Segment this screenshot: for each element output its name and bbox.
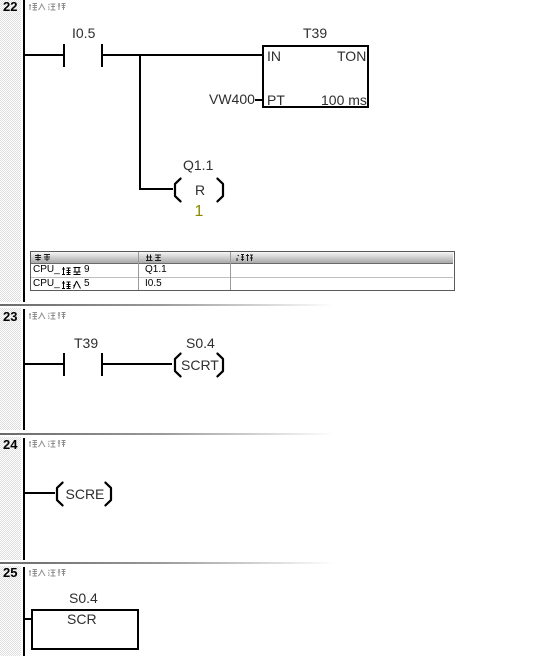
margin gutter network 25 <box>0 566 21 656</box>
symbol table header background <box>31 252 453 263</box>
network number 23 <box>3 310 17 323</box>
contact T39 right bar <box>101 353 103 376</box>
symbol table header bottom edge <box>31 263 453 264</box>
coil S0.4 label <box>186 336 215 350</box>
header 符号 <box>34 253 52 262</box>
SCR box title <box>67 612 97 626</box>
timer preset 100 ms <box>321 93 367 107</box>
coil (SCRT) S0.4 <box>170 352 228 378</box>
row 1 address Q1.1 <box>145 265 167 275</box>
row 2 address I0.5 <box>145 279 162 289</box>
contact I0.5 right bar <box>101 44 103 67</box>
contact I0.5 left bar <box>63 44 65 67</box>
wire: contact T39 to coil SCRT <box>102 363 172 365</box>
row 1 symbol CPU_输出9 <box>33 265 60 275</box>
left power rail network 22 <box>23 0 25 302</box>
wire: branch horizontal to reset coil <box>139 188 173 190</box>
coil R letter <box>195 183 205 197</box>
network comment 输入注释 <box>29 439 67 448</box>
coil (SCRE) <box>52 481 116 507</box>
coil SCRE text <box>66 487 105 501</box>
contact T39 left bar <box>63 353 65 376</box>
timer pin label PT <box>267 93 285 107</box>
wire: rail to contact T39 <box>25 363 63 365</box>
separator line network 23 <box>0 304 539 306</box>
coil SCRT text <box>181 358 219 372</box>
timer pin label IN <box>267 49 281 63</box>
operand VW400 <box>209 92 255 106</box>
SCR box operand S0.4 <box>69 591 98 605</box>
network comment 输入注释 <box>29 311 67 320</box>
margin gutter network 22 <box>0 0 21 302</box>
timer type label TON <box>337 49 366 63</box>
wire: contact to timer box IN <box>102 54 262 56</box>
timer T39 label <box>303 26 327 40</box>
left power rail network 25 <box>23 567 25 656</box>
contact I0.5 label <box>72 26 95 40</box>
SCR box <box>31 609 139 650</box>
wire: VW400 tick to PT <box>255 99 262 101</box>
network comment 输入注释 <box>29 568 67 577</box>
coil Q1.1 label <box>183 158 213 172</box>
network comment 输入注释 <box>29 2 67 11</box>
network number 22 <box>3 0 17 13</box>
header 地址 <box>145 253 163 262</box>
separator line network 24 <box>0 433 539 435</box>
separator line network 25 <box>0 562 539 564</box>
wire: branch vertical down to reset coil <box>139 54 141 190</box>
row 2 symbol CPU_输入5 <box>33 279 60 289</box>
symbol table row divider <box>31 277 453 278</box>
reset operand count 1 <box>195 204 204 220</box>
coil (R) reset Q1.1 <box>170 177 228 203</box>
network number 24 <box>3 438 17 451</box>
network number 25 <box>3 566 17 579</box>
symbol table frame <box>30 251 455 291</box>
contact T39 label <box>74 336 98 350</box>
symbol table column divider 1 <box>138 252 139 290</box>
wire: rail to contact I0.5 <box>25 54 63 56</box>
wire: rail to coil SCRE <box>25 492 55 494</box>
timer box T39 TON <box>262 45 369 108</box>
wire: rail stub to SCR box <box>25 618 31 620</box>
margin gutter network 23 <box>0 308 21 430</box>
header 注释 <box>236 253 254 262</box>
left power rail network 24 <box>23 438 25 560</box>
margin gutter network 24 <box>0 437 21 560</box>
symbol table column divider 2 <box>230 252 231 290</box>
left power rail network 23 <box>23 309 25 430</box>
